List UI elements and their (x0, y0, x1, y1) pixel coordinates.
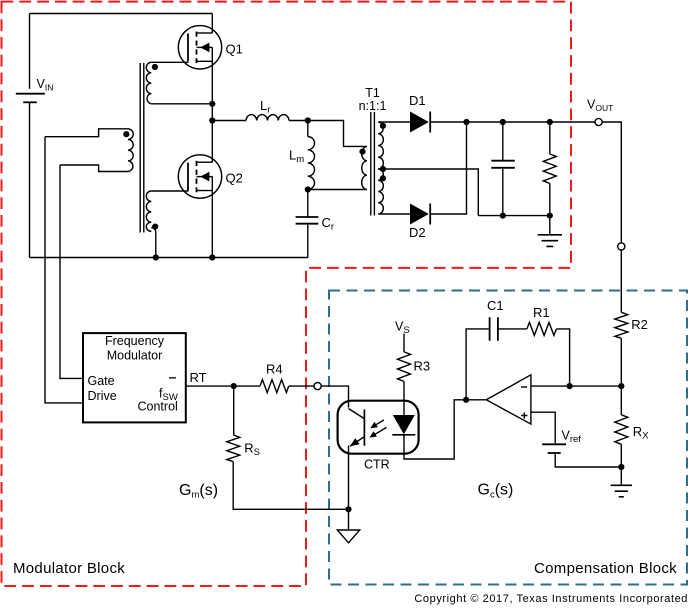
capacitor C1 plates (490, 317, 498, 341)
junction node opamp output (463, 397, 469, 403)
MOSFET Q2 drain lead (197, 161, 213, 163)
wire VOUT circle to right column (602, 122, 621, 243)
wire RS bottom to opto emitter ground wire (233, 462, 348, 510)
wire Vref to RX bottom node (555, 453, 621, 467)
wire node A to T1 primary top (308, 121, 367, 147)
MOSFET Q2 body circle (178, 155, 221, 198)
junction node rail / Q2 source (209, 254, 215, 260)
junction node load resistor top (547, 119, 553, 125)
resistor RS zigzag (227, 435, 240, 462)
svg-text:Modulator Block: Modulator Block (13, 560, 125, 577)
junction node half-bridge midpoint (209, 117, 215, 123)
svg-text:Gc(s): Gc(s) (478, 482, 514, 501)
terminal open circle RT line (314, 383, 321, 390)
frequency modulator box U1 (83, 333, 186, 422)
junction node Q1 source / top secondary (209, 101, 215, 107)
wire T1 center tap (378, 169, 478, 216)
op-amp U2 triangle (486, 375, 531, 424)
junction node Lm-Cr (305, 186, 311, 192)
wire T1 top secondary to D1 (378, 121, 410, 123)
wire LED cathode to opamp output node (404, 400, 466, 459)
junction node Lr-Lm (305, 117, 311, 123)
wire R4 to opto circle (289, 385, 314, 387)
svg-text:Cr: Cr (322, 215, 335, 233)
wire half-bridge vertical (Q1 drain to Q2 source) (211, 14, 213, 258)
svg-text:Modulator: Modulator (107, 349, 163, 363)
junction node R1 feedback (567, 383, 573, 389)
junction node RS-emitter (345, 506, 351, 512)
wire opamp output node up to C1 (466, 329, 490, 400)
inductor Lr leads (212, 120, 307, 122)
ground symbol below RX (611, 485, 632, 497)
battery VIN lower lead (29, 102, 31, 257)
wire bottom rail (30, 257, 308, 259)
resistor RS top lead (233, 386, 235, 435)
svg-text:T1: T1 (365, 86, 380, 100)
resistor RX zigzag (615, 415, 628, 445)
wire RX to ground node (620, 444, 622, 485)
wire D2 cathode up to output rail (430, 122, 466, 214)
wire gate drive inner (to Gate pin) (60, 165, 83, 378)
MOSFET Q1 body arrow (200, 43, 209, 53)
wire inverting node to RX (620, 386, 622, 415)
svg-text:VOUT: VOUT (587, 98, 613, 114)
junction node RT-R4-RS (231, 383, 237, 389)
gate transformer top secondary winding (146, 62, 151, 104)
optocoupler U3 body (338, 401, 419, 454)
battery VIN long plate (16, 93, 45, 95)
svg-text:Copyright © 2017, Texas Instru: Copyright © 2017, Texas Instruments Inco… (414, 593, 688, 605)
opto phototransistor base bar (363, 410, 365, 446)
polarity dot bottom secondary (152, 224, 158, 230)
wire gate transformer primary top lead (45, 129, 128, 137)
wire VS to R3 (403, 334, 405, 352)
svg-text:D2: D2 (409, 225, 426, 240)
diode D2 triangle (410, 204, 429, 225)
capacitor Cr plates (296, 217, 319, 224)
wire noninverting input to Vref (531, 412, 555, 443)
MOSFET Q2 gate bar (187, 163, 189, 191)
capacitor Cr top lead (307, 190, 309, 218)
gate transformer bottom secondary winding (146, 191, 151, 231)
junction node RX bottom (618, 464, 624, 470)
terminal open circle on output sense wire (618, 243, 625, 250)
modulator block dashed red border (2, 2, 572, 586)
svg-text:Gm(s): Gm(s) (179, 482, 218, 501)
wire D1 cathode to VOUT node (430, 121, 595, 123)
inductor Lr coil (246, 115, 289, 121)
diode D2 cathode bar (429, 204, 431, 225)
polarity dot gate transformer primary (123, 131, 129, 137)
gate transformer primary winding (128, 129, 133, 172)
opto light arrow 2 head (369, 431, 377, 437)
svg-text:Lm: Lm (289, 148, 304, 166)
svg-text:VS: VS (395, 320, 410, 337)
inductor Lm coil (308, 137, 315, 190)
svg-text:CTR: CTR (364, 458, 390, 472)
load resistor top lead (549, 122, 551, 154)
wire terminal circle to R2 (620, 250, 622, 312)
svg-text:R2: R2 (631, 317, 648, 332)
svg-text:Vref: Vref (562, 429, 582, 446)
diode D1 triangle (410, 112, 429, 133)
op-amp minus input symbol (521, 386, 527, 388)
MOSFET Q2 body arrow (200, 172, 209, 182)
opto light arrow 1 line (374, 420, 384, 426)
MOSFET Q1 body lead (197, 46, 213, 48)
resistor R4 zigzag (260, 380, 289, 393)
op-amp plus input symbol (521, 412, 527, 418)
opto phototransistor collector slant (349, 409, 365, 419)
battery VIN upper lead (29, 14, 31, 89)
gate transformer core (140, 63, 144, 233)
wire T1 bottom secondary to D2 (378, 213, 410, 215)
wire C1 to R1 (498, 328, 527, 330)
resistor R3 zigzag (398, 352, 411, 382)
MOSFET Q1 gate bar (187, 34, 189, 62)
MOSFET Q1 drain lead (197, 32, 213, 34)
diode D1 cathode bar (429, 112, 431, 133)
output capacitor top lead (502, 122, 504, 161)
MOSFET Q1 body circle (178, 26, 221, 69)
svg-text:Control: Control (138, 399, 178, 413)
junction node load resistor bottom (547, 213, 553, 219)
battery Vref long plate (542, 443, 566, 445)
svg-text:Q2: Q2 (226, 171, 243, 186)
svg-text:C1: C1 (487, 298, 504, 313)
junction node R2-RX divider (618, 383, 624, 389)
opto LED triangle (393, 415, 415, 434)
wire gate transformer primary bottom lead (60, 165, 128, 172)
inductor Lm top lead (307, 121, 309, 137)
svg-text:RT: RT (190, 370, 207, 385)
svg-text:Gate: Gate (88, 374, 115, 388)
svg-text:Frequency: Frequency (105, 334, 165, 348)
transformer T1 bottom secondary winding (378, 169, 383, 214)
MOSFET Q2 body lead (197, 176, 213, 178)
MOSFET Q1 channel segments (196, 32, 198, 63)
wire output return rail (478, 215, 550, 217)
output capacitor bottom lead (502, 168, 504, 216)
transformer T1 core (371, 112, 375, 216)
svg-text:Drive: Drive (88, 389, 117, 403)
opto light arrow 2 line (374, 427, 387, 435)
polarity dot T1 bottom secondary (380, 175, 386, 181)
svg-text:RS: RS (244, 440, 260, 458)
MOSFET Q2 channel segments (196, 161, 198, 193)
compensation block dashed blue border (329, 291, 687, 585)
svg-text:D1: D1 (409, 93, 426, 108)
svg-text:Lr: Lr (260, 98, 270, 116)
wire top secondary bottom to Q1 source (151, 103, 212, 105)
svg-text:R1: R1 (533, 305, 550, 320)
wire R3 to LED anode (403, 381, 405, 415)
polarity dot T1 top secondary (380, 123, 386, 129)
polarity dot top secondary (152, 64, 158, 70)
junction node output cap top (500, 119, 506, 125)
junction node output cap bottom (500, 213, 506, 219)
resistor R2 zigzag (615, 312, 628, 338)
wire gate drive outer (to Drive pin) (45, 137, 83, 403)
wire RT pin to R4 (186, 385, 260, 387)
capacitor Cr bottom lead (307, 224, 309, 258)
polarity dot T1 primary (359, 149, 365, 155)
wire opamp output (466, 399, 486, 401)
svg-text:VIN: VIN (37, 77, 54, 93)
load resistor bottom lead (549, 184, 551, 216)
junction node D1-D2 cathodes (463, 119, 469, 125)
battery Vref short plate (548, 452, 561, 454)
svg-text:Compensation Block: Compensation Block (534, 560, 677, 577)
transformer T1 primary winding (362, 146, 367, 189)
wire R2 to inverting node (620, 338, 622, 386)
wire bottom secondary down lead to rail (151, 227, 156, 257)
wire R1 to inverting input node (556, 329, 569, 386)
MOSFET Q2 source lead (197, 190, 213, 192)
wire bottom secondary to Q2 gate (151, 190, 188, 192)
opto light arrow 1 head (370, 422, 378, 428)
ground output symbol (538, 235, 562, 247)
MOSFET Q1 source lead (197, 60, 213, 62)
wire opto circle to phototransistor collector (321, 386, 348, 407)
junction node rail / bottom secondary (153, 254, 159, 260)
ground output stub (549, 216, 551, 235)
minus sign above fSW (169, 377, 176, 379)
battery VIN short plate (23, 101, 37, 103)
svg-text:RX: RX (633, 424, 649, 442)
opto LED cathode bar (392, 434, 415, 436)
output capacitor plates (491, 161, 515, 168)
opto emitter arrowhead (350, 438, 360, 446)
ground triangle symbol (337, 530, 359, 543)
wire node B to T1 primary bottom (308, 189, 367, 191)
junction node T1 center tap (380, 166, 386, 172)
wire opto emitter down (348, 446, 350, 510)
terminal VOUT open circle (595, 118, 602, 125)
ground stub below RS node (348, 509, 350, 530)
svg-text:Q1: Q1 (226, 41, 243, 56)
transformer T1 top secondary winding (378, 122, 383, 169)
svg-text:n:1:1: n:1:1 (359, 99, 387, 113)
svg-text:R4: R4 (266, 361, 283, 376)
wire top secondary to Q1 gate (151, 61, 188, 63)
svg-text:R3: R3 (414, 359, 431, 374)
wire top rail from VIN to Q1 drain (30, 13, 213, 15)
load resistor zigzag (543, 154, 556, 184)
wire inverting input (531, 385, 621, 387)
opto phototransistor emitter slant (350, 437, 364, 447)
resistor R1 zigzag (527, 322, 557, 335)
